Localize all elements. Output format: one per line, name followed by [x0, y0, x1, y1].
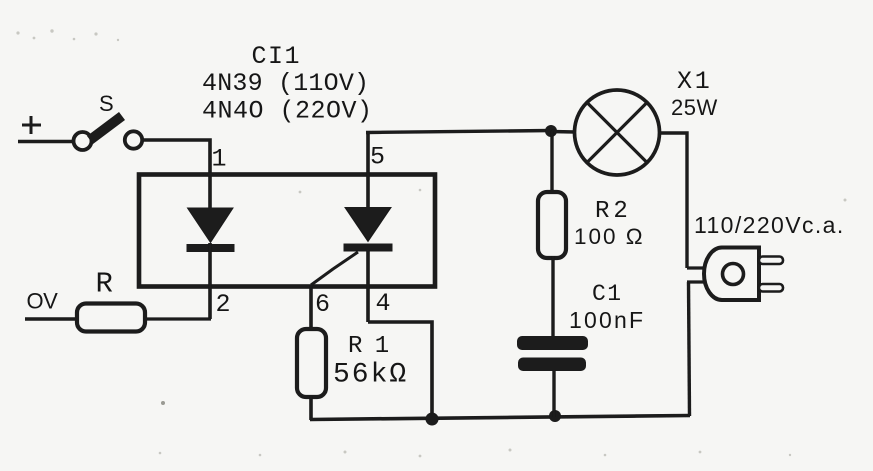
resistor R1 (vertical) [297, 329, 326, 397]
junction node pin4/bottom [426, 413, 439, 426]
wire from + terminal to switch S [18, 140, 73, 144]
svg-text:CI1: CI1 [252, 42, 302, 71]
wire node to R2 [550, 131, 553, 194]
svg-text:4N39 (11OV): 4N39 (11OV) [202, 69, 369, 98]
capacitor C1 [517, 336, 588, 371]
optocoupler IC body CI1 [139, 175, 435, 287]
svg-text:X1: X1 [677, 67, 713, 96]
wire pin2 to resistor R [145, 317, 211, 320]
bottom rail wire [310, 416, 690, 420]
photo-SCR inside CI1 (pins 5,4 and gate 6) [311, 134, 393, 322]
svg-text:5: 5 [370, 143, 385, 172]
wire from switch to pin 1 [143, 140, 210, 208]
svg-text:2: 2 [216, 290, 231, 319]
svg-text:R: R [96, 268, 113, 301]
svg-text:100 Ω: 100 Ω [574, 224, 645, 249]
wire pin 6 to R1 [309, 285, 313, 330]
svg-text:OV: OV [27, 289, 59, 314]
lamp X1 [575, 90, 660, 175]
wire node to lamp [551, 130, 575, 134]
svg-text:1: 1 [212, 145, 227, 174]
resistor R (horizontal) [77, 304, 145, 332]
svg-text:R2: R2 [595, 198, 632, 225]
wire R1 to bottom rail [309, 396, 313, 420]
svg-text:6: 6 [315, 290, 330, 319]
switch S [74, 112, 143, 150]
mains plug P1 [687, 248, 783, 301]
svg-text:4: 4 [376, 289, 391, 318]
svg-text:R 1: R 1 [348, 333, 389, 360]
node + (positive supply terminal) [22, 116, 41, 134]
svg-text:25W: 25W [671, 95, 718, 120]
svg-text:100nF: 100nF [569, 307, 645, 333]
wire pin 4 jog to bottom rail [368, 322, 432, 419]
svg-text:S: S [99, 91, 114, 116]
LED inside CI1 (anode pin 1, cathode pin 2) [187, 208, 235, 319]
wire pin 5 to lamp node [366, 131, 552, 133]
wire 0V to resistor R [25, 317, 77, 321]
wire R2 to C1 [551, 256, 554, 338]
wire C1 to bottom rail [552, 370, 555, 417]
svg-text:C1: C1 [592, 281, 623, 307]
resistor R2 (vertical) [538, 192, 566, 258]
svg-text:4N4O (22OV): 4N4O (22OV) [202, 97, 373, 126]
svg-text:56kΩ: 56kΩ [333, 360, 408, 391]
junction node C1/bottom [549, 410, 561, 422]
wire lamp to plug (top) [660, 133, 687, 268]
svg-text:110/220Vc.a.: 110/220Vc.a. [694, 212, 845, 238]
wire plug to bottom rail (right riser) [689, 282, 690, 416]
junction node at lamp/R2 [545, 125, 557, 137]
